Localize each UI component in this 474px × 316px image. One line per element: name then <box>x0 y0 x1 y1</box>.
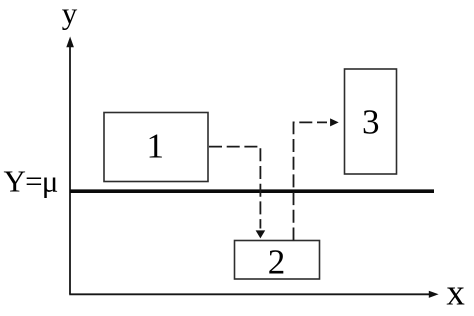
svg-text:3: 3 <box>362 102 380 141</box>
svg-text:Y=μ: Y=μ <box>4 164 58 199</box>
svg-text:y: y <box>62 0 78 31</box>
svg-text:2: 2 <box>268 243 286 282</box>
svg-text:1: 1 <box>146 127 164 166</box>
svg-text:x: x <box>446 272 465 313</box>
